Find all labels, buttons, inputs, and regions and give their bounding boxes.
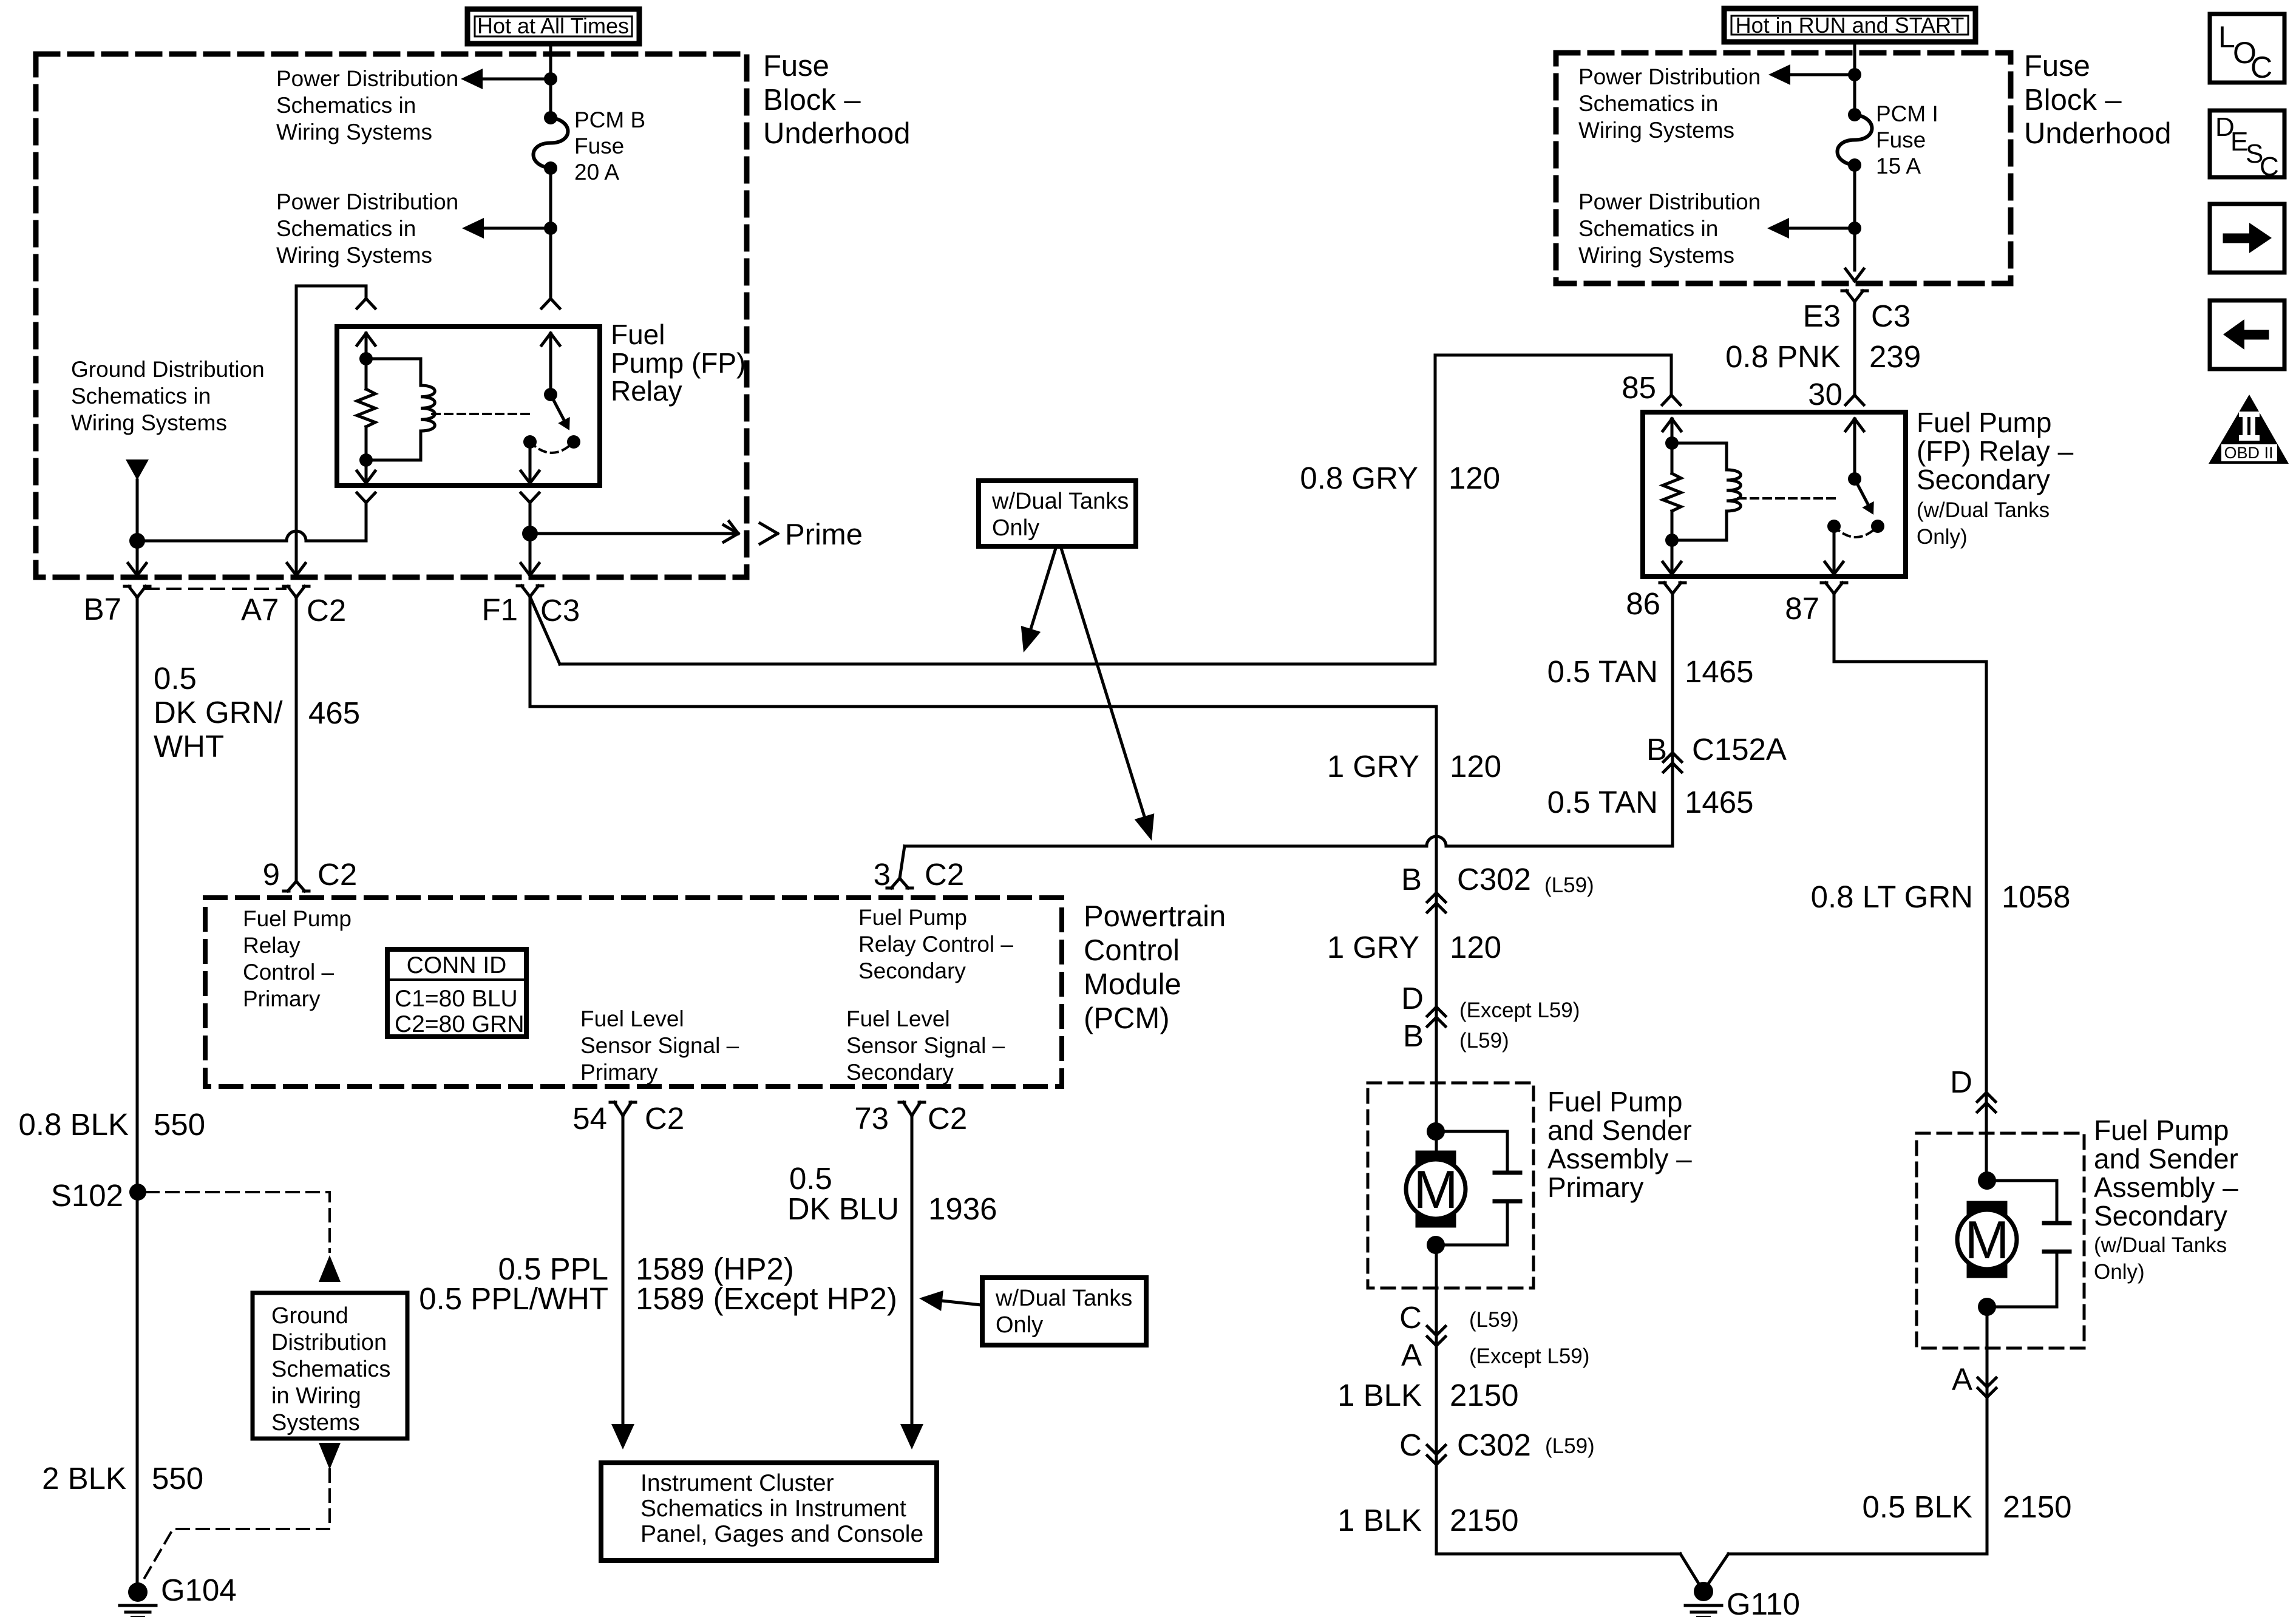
svg-text:Fuel Level: Fuel Level <box>580 1006 684 1031</box>
svg-text:Block –: Block – <box>2024 84 2122 117</box>
svg-text:550: 550 <box>152 1461 203 1496</box>
svg-text:D: D <box>1401 981 1424 1015</box>
svg-text:Instrument Cluster: Instrument Cluster <box>640 1470 834 1496</box>
svg-text:C3: C3 <box>1871 299 1911 333</box>
svg-text:Fuse: Fuse <box>574 134 624 158</box>
svg-text:Fuel Pump: Fuel Pump <box>1917 407 2051 438</box>
svg-text:Fuel Pump: Fuel Pump <box>858 905 967 930</box>
svg-text:(L59): (L59) <box>1544 873 1594 897</box>
svg-text:120: 120 <box>1449 461 1500 495</box>
svg-text:(L59): (L59) <box>1459 1029 1509 1053</box>
svg-text:Pump (FP): Pump (FP) <box>611 347 746 379</box>
svg-text:Powertrain: Powertrain <box>1084 900 1226 933</box>
svg-text:1465: 1465 <box>1685 785 1753 819</box>
svg-text:(L59): (L59) <box>1545 1434 1595 1458</box>
svg-text:Fuel: Fuel <box>611 319 665 350</box>
svg-text:Primary: Primary <box>580 1060 658 1085</box>
svg-text:Secondary: Secondary <box>2094 1200 2227 1232</box>
svg-text:Assembly –: Assembly – <box>1547 1143 1692 1175</box>
svg-text:0.5 TAN: 0.5 TAN <box>1547 654 1658 689</box>
svg-text:Secondary: Secondary <box>846 1060 954 1085</box>
svg-text:Wiring Systems: Wiring Systems <box>1578 118 1734 143</box>
svg-text:86: 86 <box>1626 586 1660 621</box>
svg-text:Schematics in: Schematics in <box>276 216 416 241</box>
svg-text:Hot at All Times: Hot at All Times <box>477 13 629 38</box>
svg-text:30: 30 <box>1808 377 1843 412</box>
svg-text:Primary: Primary <box>1547 1171 1643 1203</box>
svg-text:DK BLU: DK BLU <box>787 1192 899 1226</box>
svg-text:Prime: Prime <box>785 518 863 551</box>
svg-text:Systems: Systems <box>271 1410 360 1436</box>
svg-text:Fuse: Fuse <box>2024 50 2090 83</box>
svg-text:Control: Control <box>1084 934 1180 967</box>
svg-text:Fuse: Fuse <box>763 50 829 83</box>
svg-text:Sensor Signal –: Sensor Signal – <box>846 1033 1005 1058</box>
svg-text:(w/Dual Tanks: (w/Dual Tanks <box>1917 498 2050 522</box>
svg-text:Module: Module <box>1084 968 1181 1001</box>
svg-text:0.5: 0.5 <box>789 1161 832 1196</box>
svg-text:Power Distribution: Power Distribution <box>1578 64 1761 89</box>
svg-text:2150: 2150 <box>2003 1490 2071 1524</box>
svg-text:Power Distribution: Power Distribution <box>276 66 458 91</box>
svg-text:0.5: 0.5 <box>154 661 197 696</box>
svg-text:C: C <box>2260 152 2279 181</box>
svg-text:(FP) Relay –: (FP) Relay – <box>1917 435 2074 467</box>
svg-text:1 GRY: 1 GRY <box>1327 749 1419 784</box>
svg-text:1589 (Except HP2): 1589 (Except HP2) <box>636 1281 897 1316</box>
svg-text:Fuel Pump: Fuel Pump <box>243 906 352 931</box>
svg-text:0.5 BLK: 0.5 BLK <box>1863 1490 1972 1524</box>
svg-text:WHT: WHT <box>154 729 224 764</box>
svg-text:Relay Control –: Relay Control – <box>858 932 1013 957</box>
svg-text:Ground: Ground <box>271 1303 348 1329</box>
svg-text:B7: B7 <box>84 592 121 626</box>
svg-text:Schematics: Schematics <box>271 1357 390 1382</box>
svg-text:1 BLK: 1 BLK <box>1337 1378 1422 1412</box>
svg-text:C3: C3 <box>540 593 580 628</box>
svg-text:C1=80 BLU: C1=80 BLU <box>395 986 518 1012</box>
svg-text:(Except L59): (Except L59) <box>1459 998 1580 1022</box>
svg-text:Schematics in: Schematics in <box>71 384 211 408</box>
svg-text:1058: 1058 <box>2002 880 2070 914</box>
svg-text:(PCM): (PCM) <box>1084 1002 1170 1035</box>
svg-text:DK GRN/: DK GRN/ <box>154 695 283 730</box>
svg-text:3: 3 <box>874 857 891 892</box>
svg-text:Only: Only <box>992 515 1039 541</box>
svg-text:Fuel Pump: Fuel Pump <box>2094 1114 2229 1146</box>
svg-text:B: B <box>1403 1019 1424 1053</box>
svg-text:B: B <box>1401 862 1422 897</box>
svg-text:A7: A7 <box>241 592 279 627</box>
svg-text:C2: C2 <box>925 857 964 892</box>
svg-text:Only): Only) <box>1917 525 1968 549</box>
svg-text:C2=80 GRN: C2=80 GRN <box>395 1011 525 1037</box>
svg-text:C: C <box>1399 1300 1422 1335</box>
svg-text:0.5 TAN: 0.5 TAN <box>1547 785 1658 819</box>
svg-text:87: 87 <box>1785 591 1819 626</box>
svg-text:Secondary: Secondary <box>1917 464 2050 495</box>
svg-text:0.8 LT GRN: 0.8 LT GRN <box>1811 880 1973 914</box>
svg-text:1936: 1936 <box>928 1192 997 1226</box>
svg-text:OBD II: OBD II <box>2224 444 2273 462</box>
svg-text:Wiring Systems: Wiring Systems <box>276 243 432 268</box>
svg-text:F1: F1 <box>481 592 518 627</box>
svg-text:Underhood: Underhood <box>2024 117 2171 150</box>
svg-text:Relay: Relay <box>243 933 301 958</box>
svg-text:1465: 1465 <box>1685 654 1753 689</box>
svg-text:Distribution: Distribution <box>271 1330 387 1355</box>
svg-text:Hot in RUN and START: Hot in RUN and START <box>1736 13 1965 38</box>
svg-text:Power Distribution: Power Distribution <box>276 189 458 214</box>
svg-text:Power Distribution: Power Distribution <box>1578 189 1761 214</box>
svg-text:E3: E3 <box>1803 299 1841 333</box>
svg-text:and Sender: and Sender <box>1547 1114 1692 1146</box>
svg-text:2150: 2150 <box>1450 1503 1518 1537</box>
svg-text:2150: 2150 <box>1450 1378 1518 1412</box>
svg-text:S102: S102 <box>51 1178 123 1213</box>
svg-text:Secondary: Secondary <box>858 958 966 983</box>
svg-text:120: 120 <box>1450 930 1501 964</box>
svg-text:15 A: 15 A <box>1876 154 1921 178</box>
svg-text:Control –: Control – <box>243 960 335 985</box>
svg-text:C: C <box>2250 50 2272 84</box>
svg-text:Ground Distribution: Ground Distribution <box>71 357 265 382</box>
svg-text:Assembly –: Assembly – <box>2094 1171 2238 1203</box>
svg-text:Wiring Systems: Wiring Systems <box>276 120 432 144</box>
svg-text:(w/Dual Tanks: (w/Dual Tanks <box>2094 1233 2227 1257</box>
svg-text:0.8 PNK: 0.8 PNK <box>1725 339 1841 374</box>
svg-text:w/Dual Tanks: w/Dual Tanks <box>991 489 1129 514</box>
svg-text:2 BLK: 2 BLK <box>42 1461 126 1496</box>
svg-text:0.5 PPL/WHT: 0.5 PPL/WHT <box>419 1281 608 1316</box>
svg-text:Schematics in: Schematics in <box>276 93 416 118</box>
svg-text:w/Dual Tanks: w/Dual Tanks <box>995 1286 1132 1311</box>
svg-text:Block –: Block – <box>763 84 861 117</box>
svg-text:A: A <box>1952 1362 1972 1397</box>
svg-text:in Wiring: in Wiring <box>271 1383 361 1409</box>
svg-text:C302: C302 <box>1457 1428 1531 1462</box>
svg-text:Schematics in: Schematics in <box>1578 216 1718 241</box>
svg-text:73: 73 <box>854 1101 889 1136</box>
svg-text:CONN ID: CONN ID <box>407 952 507 978</box>
svg-text:Relay: Relay <box>611 375 682 407</box>
svg-text:0.8 GRY: 0.8 GRY <box>1300 461 1418 495</box>
svg-text:Schematics in Instrument: Schematics in Instrument <box>640 1496 906 1522</box>
svg-text:Wiring Systems: Wiring Systems <box>71 410 227 435</box>
svg-text:Only: Only <box>996 1312 1043 1338</box>
svg-text:M: M <box>1965 1210 2009 1270</box>
svg-text:1 GRY: 1 GRY <box>1327 930 1419 964</box>
svg-text:85: 85 <box>1622 370 1656 405</box>
svg-text:A: A <box>1401 1338 1422 1372</box>
svg-text:Panel, Gages and Console: Panel, Gages and Console <box>640 1521 923 1547</box>
svg-text:C2: C2 <box>928 1101 967 1136</box>
svg-text:465: 465 <box>308 696 360 730</box>
svg-text:Underhood: Underhood <box>763 117 910 150</box>
svg-text:Only): Only) <box>2094 1260 2145 1284</box>
svg-text:D: D <box>1950 1065 1972 1099</box>
svg-text:Schematics in: Schematics in <box>1578 91 1718 116</box>
svg-text:and Sender: and Sender <box>2094 1143 2238 1175</box>
svg-text:Sensor Signal –: Sensor Signal – <box>580 1033 739 1058</box>
svg-text:20 A: 20 A <box>574 160 619 185</box>
svg-text:PCM I: PCM I <box>1876 101 1938 126</box>
svg-text:M: M <box>1413 1159 1458 1219</box>
svg-text:Fuse: Fuse <box>1876 127 1926 152</box>
svg-text:120: 120 <box>1450 749 1501 784</box>
svg-text:PCM B: PCM B <box>574 107 645 132</box>
svg-text:G104: G104 <box>161 1573 237 1607</box>
svg-text:C152A: C152A <box>1692 732 1787 767</box>
svg-text:Fuel Pump: Fuel Pump <box>1547 1086 1682 1117</box>
svg-text:54: 54 <box>572 1101 607 1136</box>
svg-text:C2: C2 <box>307 593 346 628</box>
svg-text:(L59): (L59) <box>1469 1308 1519 1332</box>
svg-text:550: 550 <box>154 1107 205 1142</box>
svg-text:Wiring Systems: Wiring Systems <box>1578 243 1734 268</box>
svg-text:9: 9 <box>263 857 280 892</box>
svg-text:C302: C302 <box>1457 862 1531 897</box>
svg-text:C2: C2 <box>318 857 357 892</box>
svg-text:G110: G110 <box>1727 1587 1800 1617</box>
svg-text:C: C <box>1399 1428 1422 1462</box>
svg-text:C2: C2 <box>645 1101 684 1136</box>
svg-text:Fuel Level: Fuel Level <box>846 1006 950 1031</box>
svg-text:0.8 BLK: 0.8 BLK <box>19 1107 129 1142</box>
svg-text:1 BLK: 1 BLK <box>1337 1503 1422 1537</box>
svg-text:(Except L59): (Except L59) <box>1469 1344 1589 1368</box>
svg-text:Primary: Primary <box>243 986 321 1011</box>
svg-text:239: 239 <box>1869 339 1921 374</box>
